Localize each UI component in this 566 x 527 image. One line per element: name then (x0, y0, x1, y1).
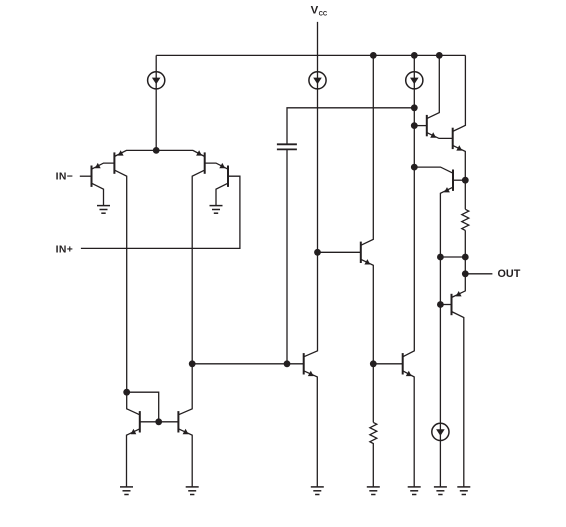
svg-text:IN+: IN+ (56, 244, 74, 255)
svg-text:OUT: OUT (498, 268, 521, 280)
svg-text:IN−: IN− (56, 171, 74, 182)
svg-text:V: V (311, 4, 319, 16)
svg-text:CC: CC (319, 12, 328, 18)
